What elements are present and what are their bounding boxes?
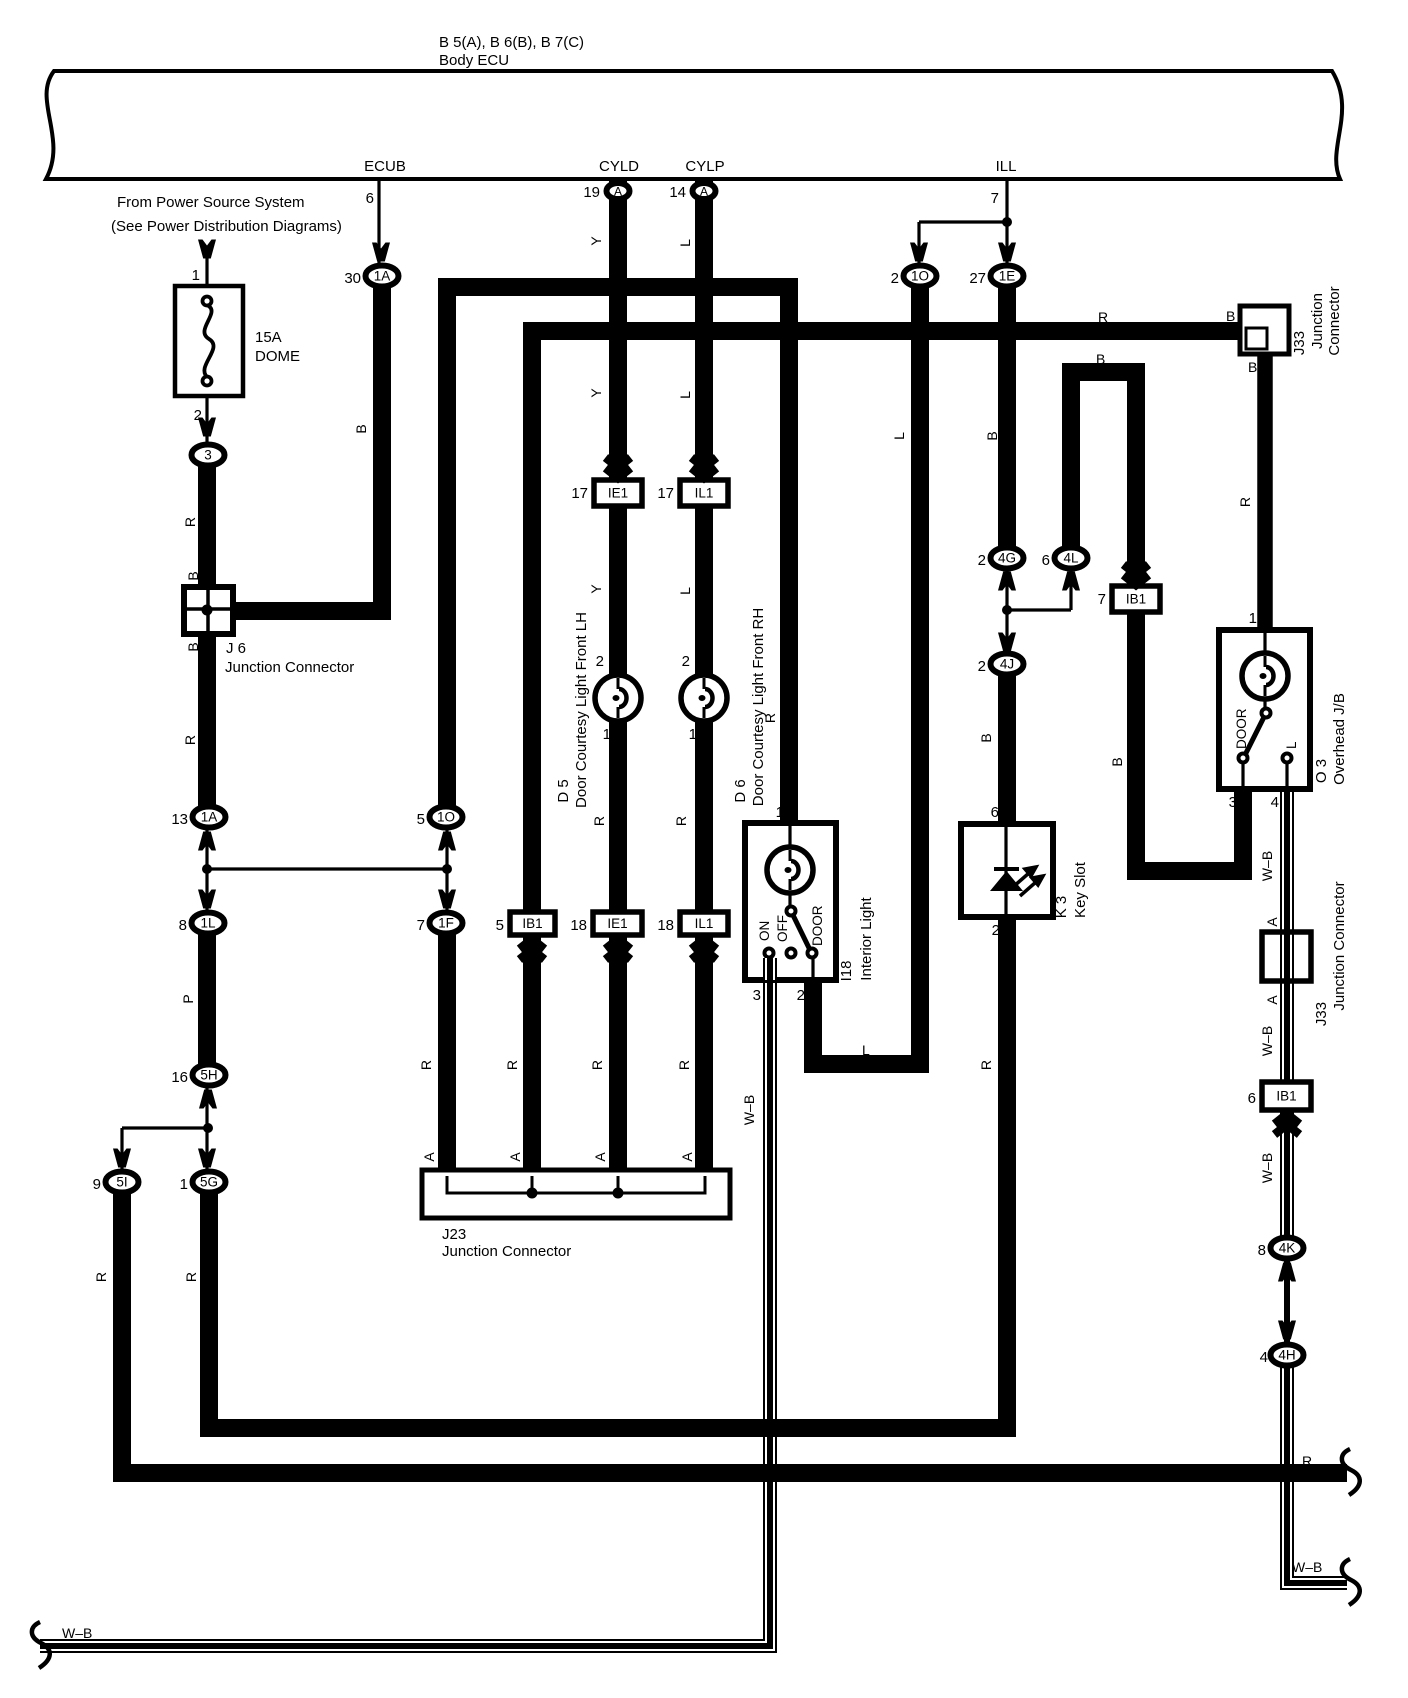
svg-text:O 3: O 3	[1313, 759, 1330, 783]
wire 5H to junction	[205, 1086, 208, 1128]
fuse element	[203, 297, 214, 386]
svg-text:Junction Connector: Junction Connector	[442, 1243, 571, 1260]
svg-text:OFF: OFF	[775, 915, 790, 942]
svg-text:27: 27	[969, 270, 986, 287]
I18 switch pivot	[787, 907, 796, 916]
svg-text:1A: 1A	[374, 269, 391, 284]
svg-text:Interior Light: Interior Light	[858, 896, 875, 980]
wire IB1(7) down, right, up to O3 pin3 (B)	[1136, 610, 1243, 871]
connector 4J pin2	[978, 654, 1024, 676]
svg-text:B: B	[1109, 757, 1125, 766]
break symbol R wire right	[1342, 1449, 1360, 1495]
arrow below 1O pin5	[438, 832, 456, 851]
svg-text:7: 7	[991, 190, 999, 207]
svg-text:From Power Source System: From Power Source System	[117, 194, 305, 211]
svg-text:3: 3	[1229, 794, 1237, 811]
wire junction to 5G	[205, 1128, 208, 1171]
interior light I18 box	[745, 823, 836, 980]
svg-text:L: L	[1284, 741, 1299, 749]
connector 5G pin1	[180, 1172, 226, 1194]
O3 bulb	[1242, 653, 1288, 699]
svg-text:5I: 5I	[116, 1175, 127, 1190]
I18 contact OFF	[787, 949, 796, 958]
svg-text:B: B	[1096, 351, 1105, 367]
chevrons below IB1 pin5	[520, 939, 545, 960]
svg-text:R: R	[182, 517, 198, 527]
connector IL1 pin18	[657, 912, 728, 935]
arrow below 4K	[1278, 1263, 1296, 1282]
svg-text:CYLD: CYLD	[599, 158, 639, 175]
svg-text:2: 2	[682, 653, 690, 670]
svg-text:A: A	[421, 1152, 437, 1162]
svg-text:17: 17	[571, 485, 588, 502]
wire 1E(27) down to 4G (B)	[998, 288, 1016, 547]
J23 bus dot 1	[527, 1188, 538, 1199]
svg-text:J 6: J 6	[226, 640, 246, 657]
svg-text:5: 5	[417, 811, 425, 828]
svg-text:IL1: IL1	[695, 916, 714, 931]
wire 1A(13) to 1L(8)	[205, 828, 208, 911]
svg-text:R: R	[418, 1060, 434, 1070]
svg-text:D 6: D 6	[732, 779, 749, 802]
svg-text:J33: J33	[1291, 331, 1308, 355]
svg-text:IB1: IB1	[1276, 1089, 1296, 1104]
svg-text:2: 2	[194, 407, 202, 424]
svg-text:L: L	[891, 432, 907, 440]
O3 pin3 internal	[1241, 762, 1244, 789]
wire J6 to connector 1A pin13 (R)	[198, 634, 216, 806]
svg-text:R: R	[93, 1272, 109, 1282]
chevrons below IB1 pin6	[1275, 1114, 1300, 1135]
svg-text:Y: Y	[588, 236, 604, 246]
svg-text:IB1: IB1	[522, 916, 542, 931]
wire 1O(2) down x920, left y1064, up to I18 pin2 (L)	[813, 288, 920, 1064]
svg-text:4H: 4H	[1278, 1348, 1295, 1363]
J6 internal cross	[187, 590, 230, 631]
O3 switch blade	[1245, 713, 1266, 755]
wire CYLP to IL1(17) (L)	[695, 181, 713, 482]
I18 W-B internal	[763, 958, 777, 980]
svg-text:W–B: W–B	[1259, 1026, 1275, 1056]
svg-text:Body ECU: Body ECU	[439, 52, 509, 69]
svg-text:R: R	[504, 1060, 520, 1070]
svg-text:B: B	[984, 431, 1000, 440]
connector 4K pin8	[1258, 1238, 1304, 1260]
arrow below 5H	[199, 1090, 217, 1109]
svg-text:DOOR: DOOR	[810, 905, 825, 946]
node 4G-4L link	[1002, 605, 1012, 615]
arrow into 1A pin30	[372, 243, 390, 262]
K3 LED	[994, 867, 1019, 871]
wire 4L up, over, down to IB1(7) (B)	[1071, 372, 1136, 588]
wire junction up to 4L	[1069, 570, 1072, 610]
svg-text:L: L	[862, 1042, 870, 1058]
svg-text:4K: 4K	[1279, 1241, 1296, 1256]
junction connector J6 box	[184, 587, 233, 634]
connector 1A pin13	[171, 807, 225, 829]
wire junction to 5I	[120, 1128, 123, 1171]
svg-text:K 3: K 3	[1053, 896, 1070, 919]
junction connector J23 box	[422, 1170, 730, 1218]
svg-text:IE1: IE1	[608, 486, 628, 501]
svg-text:4: 4	[1271, 794, 1279, 811]
svg-text:17: 17	[657, 485, 674, 502]
node y869 right	[442, 864, 452, 874]
svg-text:B: B	[978, 733, 994, 742]
break symbol W-B wire right	[1342, 1559, 1360, 1605]
svg-text:2: 2	[891, 270, 899, 287]
connector A pin19	[583, 183, 629, 201]
svg-text:IE1: IE1	[607, 916, 627, 931]
node y1128	[203, 1123, 213, 1133]
svg-text:B: B	[353, 424, 369, 433]
svg-text:CYLP: CYLP	[685, 158, 724, 175]
svg-text:R: R	[676, 1060, 692, 1070]
svg-text:Junction Connector: Junction Connector	[1331, 881, 1348, 1010]
arrow below 1A pin13	[198, 832, 216, 851]
svg-text:DOME: DOME	[255, 348, 300, 365]
svg-text:R: R	[673, 816, 689, 826]
wire ILL pin7 down	[1005, 181, 1008, 264]
svg-text:4L: 4L	[1063, 551, 1079, 566]
connector IE1 pin17	[571, 480, 642, 506]
wire IL1(17) to bulb D6	[695, 504, 713, 698]
connector 5H pin16	[171, 1065, 225, 1087]
K3 internal wire	[1004, 824, 1007, 917]
svg-text:18: 18	[570, 917, 587, 934]
svg-text:3: 3	[753, 987, 761, 1004]
svg-text:B 5(A), B 6(B), B 7(C): B 5(A), B 6(B), B 7(C)	[439, 34, 584, 51]
Body ECU bar B5(A),B6(B),B7(C)	[46, 71, 1342, 179]
arrow into 5G	[198, 1149, 216, 1168]
fuse 15A DOME box	[175, 286, 243, 396]
svg-text:B: B	[1248, 359, 1257, 375]
I18 bulb	[767, 847, 813, 893]
connector 4G pin2	[978, 548, 1024, 570]
arrow below 4L	[1062, 572, 1080, 591]
svg-text:30: 30	[344, 270, 361, 287]
svg-text:1F: 1F	[438, 916, 454, 931]
O3 contact DOOR	[1239, 754, 1248, 763]
arrow into 1F pin7	[438, 890, 456, 909]
connector 1L pin8	[179, 913, 225, 935]
chevrons into IL1 pin17	[692, 458, 717, 479]
svg-text:R: R	[1302, 1453, 1312, 1469]
wire feed arrow to fuse	[205, 258, 208, 297]
svg-text:DOOR: DOOR	[1234, 708, 1249, 749]
J23 bus dot 2	[613, 1188, 624, 1199]
wire junction link y1128	[122, 1126, 209, 1129]
arrow into connector 3	[198, 418, 216, 437]
svg-text:R: R	[591, 816, 607, 826]
connector 1O pin2	[891, 266, 937, 288]
svg-text:1L: 1L	[200, 916, 216, 931]
svg-text:A: A	[614, 185, 622, 199]
I18 contact DOOR	[808, 949, 817, 958]
svg-text:8: 8	[179, 917, 187, 934]
wire 4K to 4H (W-B)	[1284, 1258, 1290, 1345]
O3 pin4 internal	[1285, 762, 1288, 789]
junction connector J33 (top) box	[1240, 306, 1289, 354]
svg-text:A: A	[592, 1152, 608, 1162]
wire 1L to 5H (P)	[198, 934, 216, 1066]
svg-text:6: 6	[1248, 1090, 1256, 1107]
door courtesy light front RH D6 bulb	[681, 675, 727, 721]
svg-text:J23: J23	[442, 1226, 466, 1243]
connector 1O pin5	[417, 807, 463, 829]
svg-text:Connector: Connector	[1326, 286, 1343, 355]
svg-text:6: 6	[991, 804, 999, 821]
svg-text:14: 14	[669, 184, 686, 201]
connector IB1 pin5	[496, 912, 555, 935]
connector 3	[192, 445, 225, 466]
wire 1F to J23	[438, 934, 456, 1174]
svg-text:L: L	[677, 587, 693, 595]
arrow into 4J	[998, 633, 1016, 652]
svg-text:1O: 1O	[911, 269, 929, 284]
wire IE1(18) to J23	[609, 933, 627, 1174]
svg-text:4: 4	[1260, 1349, 1268, 1366]
svg-text:1A: 1A	[201, 810, 218, 825]
arrow into 4H	[1278, 1321, 1296, 1340]
svg-text:16: 16	[171, 1069, 188, 1086]
connector IL1 pin17	[657, 480, 728, 506]
wire fuse to J6 (R)	[198, 462, 216, 587]
wire I18 pin3 W-B to ground rail	[40, 953, 770, 1646]
wire O3 pin4 W-B down through J33/IB1	[1280, 762, 1294, 1242]
J23 internal bus	[447, 1176, 705, 1193]
svg-text:ON: ON	[757, 921, 772, 941]
arrow into 1E pin27	[998, 243, 1016, 262]
svg-text:Door Courtesy Light Front RH: Door Courtesy Light Front RH	[750, 608, 767, 806]
svg-text:6: 6	[366, 190, 374, 207]
connector IB1 pin6	[1248, 1082, 1311, 1110]
svg-text:1: 1	[689, 726, 697, 743]
svg-text:W–B: W–B	[741, 1095, 757, 1125]
connector 4L pin6	[1042, 548, 1088, 570]
svg-text:1O: 1O	[437, 810, 455, 825]
arrow below 4G	[998, 572, 1016, 591]
svg-text:A: A	[507, 1152, 523, 1162]
svg-text:Y: Y	[588, 584, 604, 594]
wire 5I down, across y1473 to break (R)	[122, 1193, 1347, 1473]
arrow power feed	[198, 240, 216, 259]
wire junction link y869	[207, 867, 447, 870]
wire ILL branch to 1O(2)	[917, 222, 920, 264]
svg-text:W–B: W–B	[1259, 851, 1275, 881]
svg-text:I18: I18	[838, 961, 855, 982]
svg-text:L: L	[677, 239, 693, 247]
svg-text:Overhead J/B: Overhead J/B	[1331, 693, 1348, 785]
svg-text:J33: J33	[1313, 1002, 1330, 1026]
svg-text:7: 7	[417, 917, 425, 934]
svg-text:2: 2	[978, 658, 986, 675]
wire ILL branch horizontal	[919, 220, 1007, 223]
connector A pin14	[669, 183, 715, 201]
wire 5G down, across y1428, up to K3 pin2	[209, 915, 1007, 1428]
svg-text:4G: 4G	[998, 551, 1016, 566]
connector IE1 pin18	[570, 912, 642, 935]
junction connector J33 (lower) box	[1262, 932, 1311, 981]
svg-text:ILL: ILL	[996, 158, 1017, 175]
svg-text:7: 7	[1098, 591, 1106, 608]
svg-text:1: 1	[776, 804, 784, 821]
I18 internal wire top	[788, 823, 791, 849]
svg-text:R: R	[1237, 497, 1253, 507]
svg-text:Door Courtesy Light Front LH: Door Courtesy Light Front LH	[573, 612, 590, 808]
svg-text:1E: 1E	[999, 269, 1016, 284]
svg-text:R: R	[183, 1272, 199, 1282]
key slot K3 box	[961, 824, 1053, 917]
svg-text:6: 6	[1042, 552, 1050, 569]
door courtesy light front LH D5 bulb	[595, 675, 641, 721]
svg-text:A: A	[700, 185, 708, 199]
node ILL branch	[1002, 217, 1012, 227]
svg-text:R: R	[978, 1060, 994, 1070]
arrow into 5I	[113, 1149, 131, 1168]
svg-text:Y: Y	[588, 388, 604, 398]
connector 1A pin30	[344, 266, 398, 288]
arrow into 1O pin2	[910, 243, 928, 262]
svg-text:5H: 5H	[200, 1068, 217, 1083]
svg-text:Junction: Junction	[1309, 293, 1326, 349]
wire junction link to 4L	[1007, 608, 1071, 611]
wire J33 down to O3 pin1 (R)	[1257, 352, 1273, 632]
wire ECUB 1A pin30 down to J6 (B)	[230, 288, 382, 611]
I18 switch blade	[791, 911, 810, 950]
svg-text:A: A	[679, 1152, 695, 1162]
I18 pin2 internal	[811, 958, 814, 980]
wire 4H W-B to break	[1287, 1352, 1347, 1583]
svg-text:(See Power Distribution Diagra: (See Power Distribution Diagrams)	[111, 218, 342, 235]
svg-text:15A: 15A	[255, 329, 282, 346]
svg-text:13: 13	[171, 811, 188, 828]
wire bulb D6 to IL1(18) (R)	[695, 698, 713, 914]
I18 contact ON	[765, 949, 774, 958]
O3 contact L	[1283, 754, 1292, 763]
wire fuse pin2 to connector 3	[205, 396, 208, 442]
svg-text:18: 18	[657, 917, 674, 934]
break symbol W-B rail left	[32, 1622, 50, 1668]
svg-text:3: 3	[204, 448, 212, 463]
svg-text:IL1: IL1	[695, 486, 714, 501]
K3 LED arrows	[1013, 867, 1043, 896]
svg-text:B: B	[1226, 308, 1235, 324]
svg-text:19: 19	[583, 184, 600, 201]
connector IB1 pin7	[1098, 586, 1160, 612]
svg-text:R: R	[182, 735, 198, 745]
svg-text:A: A	[1264, 995, 1280, 1005]
wire ECUB pin6 to 1A	[377, 181, 380, 264]
svg-text:R: R	[589, 1060, 605, 1070]
svg-text:1: 1	[180, 1176, 188, 1193]
chevrons below IE1 pin18	[606, 939, 631, 960]
svg-text:W–B: W–B	[1292, 1559, 1322, 1575]
svg-text:B: B	[185, 571, 201, 580]
svg-text:Key Slot: Key Slot	[1072, 861, 1089, 918]
svg-text:ECUB: ECUB	[364, 158, 406, 175]
wire CYLD to IE1(17) (Y)	[609, 181, 627, 482]
chevrons into IB1 pin7	[1124, 565, 1149, 586]
svg-text:2: 2	[978, 552, 986, 569]
svg-text:W–B: W–B	[1259, 1153, 1275, 1183]
connector 1F pin7	[417, 913, 463, 935]
svg-text:9: 9	[93, 1176, 101, 1193]
node y869 left	[202, 864, 212, 874]
svg-text:P: P	[180, 994, 196, 1003]
O3 switch pivot	[1262, 709, 1271, 718]
svg-text:IB1: IB1	[1126, 592, 1146, 607]
svg-text:A: A	[1264, 917, 1280, 927]
chevrons into IE1 pin17	[606, 458, 631, 479]
wire IB1(5) to J23	[523, 933, 541, 1174]
svg-text:Junction Connector: Junction Connector	[225, 659, 354, 676]
wire 4G to 4J	[1005, 570, 1008, 653]
wire 1O(5) to 1F(7)	[445, 828, 448, 911]
svg-text:W–B: W–B	[62, 1625, 92, 1641]
wire IB1(5) up x532, horiz y331 to J33 (R)	[532, 331, 1242, 914]
I18 internal wire to switch	[788, 893, 791, 908]
svg-text:5: 5	[496, 917, 504, 934]
overhead J/B O3 box	[1219, 630, 1310, 789]
svg-text:2: 2	[596, 653, 604, 670]
svg-text:4J: 4J	[1000, 657, 1014, 672]
wire IE1(17) to bulb D5	[609, 504, 627, 698]
wire IL1(18) to J23	[695, 933, 713, 1174]
wire corner x447 / horiz y287 / down to I18 pin1	[447, 287, 789, 825]
connector 5I pin9	[93, 1172, 139, 1194]
svg-text:R: R	[1098, 309, 1108, 325]
svg-text:2: 2	[797, 987, 805, 1004]
svg-text:B: B	[185, 642, 201, 651]
arrow into 1L pin8	[198, 890, 216, 909]
svg-text:1: 1	[192, 267, 200, 284]
connector 1E pin27	[969, 266, 1023, 288]
connector 4H pin4	[1260, 1345, 1304, 1367]
svg-text:L: L	[677, 391, 693, 399]
svg-text:1: 1	[1249, 610, 1257, 627]
J6 junction dot	[202, 605, 213, 616]
svg-text:1: 1	[603, 726, 611, 743]
svg-text:2: 2	[992, 922, 1000, 939]
chevrons below IL1 pin18	[692, 939, 717, 960]
svg-text:8: 8	[1258, 1242, 1266, 1259]
O3 internal wire to switch	[1263, 698, 1266, 711]
wire 4J down to K3 pin6 (B)	[998, 676, 1016, 826]
wire I18 pin2 stub	[804, 978, 822, 1056]
wire bulb D5 to IE1(18) (R)	[609, 698, 627, 914]
svg-text:5G: 5G	[200, 1175, 218, 1190]
svg-text:D 5: D 5	[555, 779, 572, 802]
O3 internal wire top	[1263, 630, 1266, 654]
